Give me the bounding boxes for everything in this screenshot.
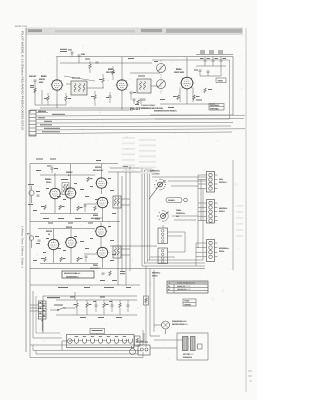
svg-text:12AT6: 12AT6 (46, 230, 53, 233)
svg-text:RECEPTACLE 1A: RECEPTACLE 1A (172, 323, 188, 326)
svg-text:EXTERNAL: EXTERNAL (219, 247, 230, 250)
chassis main frame top edge (30, 163, 118, 165)
left margin note rotated (21, 226, 24, 268)
tube heater H6 (115, 339, 119, 344)
filter value labels (70, 297, 122, 319)
connector J2 to FM tuner supply (39, 301, 47, 319)
wire: routing mesh bottoms (142, 265, 205, 267)
tube heater H8 (129, 339, 133, 344)
loop antenna LA (28, 184, 34, 205)
capacitor pair above caption (133, 99, 143, 104)
svg-text:105 100 6.5: 105 100 6.5 (177, 288, 186, 291)
output transformer T5 (113, 246, 121, 258)
svg-text:CHGR: CHGR (219, 210, 225, 213)
power nested frame 3 (36, 296, 60, 333)
wire: AM section bus lines (40, 174, 95, 176)
wire: V7 leads (102, 208, 104, 222)
svg-text:SPKR: SPKR (219, 250, 225, 253)
resistor R3 (91, 91, 96, 106)
wire: T2 couplings (151, 85, 158, 87)
wire: bottom return 1 (33, 350, 140, 352)
switch SW on-off (50, 305, 75, 311)
wire: bus drops to power section (117, 264, 119, 285)
dial lamp label box (90, 328, 105, 334)
wire: routing mesh verticals (141, 168, 143, 266)
wire: phono bus lines (38, 228, 95, 230)
wire: verticals from controls down (145, 266, 147, 347)
parts under output adj (100, 271, 125, 281)
svg-text:© John F. Rider: © John F. Rider (141, 104, 155, 107)
label box fuse rating (183, 299, 196, 306)
wire: vertical feeders to strips (197, 175, 199, 248)
wire: V4 leads (54, 173, 56, 188)
svg-text:6BE6: 6BE6 (108, 68, 114, 71)
AC outlet J3 (137, 342, 150, 356)
svg-text:SPEAKER: SPEAKER (183, 356, 193, 359)
wire: switch feeds to strips (152, 176, 206, 178)
wire: V10 V11 leads (100, 223, 102, 227)
header band: printed page header strip (26, 28, 243, 35)
wire: V5 leads (70, 164, 72, 188)
tube V1 6BA6 FM RF amp (51, 80, 64, 92)
cable labels (38, 111, 65, 133)
phono motor plug P3 (162, 321, 170, 334)
wire: power section top rail (30, 284, 140, 286)
svg-text:PAGE 19-8: PAGE 19-8 (15, 25, 28, 28)
label phono motor (172, 320, 188, 326)
S1 actuator arm (149, 185, 160, 200)
svg-text:100 85 1.2: 100 85 1.2 (177, 285, 185, 288)
wire: heater series links (70, 339, 74, 341)
svg-text:V4: V4 (168, 285, 170, 288)
svg-text:SCHEMATIC (FM TUNER): SCHEMATIC (FM TUNER) (154, 110, 177, 113)
ballast box right of heaters (135, 336, 141, 346)
label S2 tone switch (176, 209, 186, 218)
wire: V6 leads (101, 164, 103, 178)
power sub-box frame (43, 296, 137, 333)
svg-text:TONE: TONE (176, 209, 182, 212)
misc AM part labels (43, 189, 89, 219)
wire: P1 P2 links (168, 231, 186, 233)
wire: ground bus under FM section (40, 107, 150, 109)
scatter labels middle block (33, 166, 128, 261)
svg-text:SW: SW (176, 215, 179, 218)
label V11 50B5 (90, 264, 101, 270)
svg-text:OUTPUT TUBE B+: OUTPUT TUBE B+ (64, 272, 81, 275)
label TS2 record changer (219, 207, 228, 213)
wire: T1 couplings (87, 87, 104, 89)
resistor R51 filter (86, 300, 92, 315)
resistor R50 filter (74, 300, 79, 315)
tube V7 50B5 output (96, 197, 109, 209)
connector strip P2 (158, 248, 168, 264)
capacitor C7 at V2 (130, 92, 137, 100)
svg-text:TOP VIEW: TOP VIEW (210, 108, 219, 111)
resistor R25 (94, 206, 96, 211)
capacitor C52 filter (109, 300, 114, 312)
misc phono part labels (43, 241, 89, 253)
resistor R4 (99, 74, 104, 88)
chassis left edge (29, 164, 31, 346)
label V9 12AT6 (66, 226, 73, 229)
label V4 12BE6 (45, 178, 52, 184)
svg-text:12BE6: 12BE6 (45, 178, 52, 181)
svg-text:RATING: RATING (185, 303, 192, 306)
label TS3 external speaker (219, 247, 230, 253)
svg-text:FM IF AMP: FM IF AMP (174, 71, 185, 74)
connector strip P1 (158, 228, 168, 244)
table voltage chart (167, 281, 208, 293)
resistor R10 (204, 88, 212, 93)
wire: filter rails (56, 299, 137, 301)
svg-text:FM ANT: FM ANT (29, 75, 37, 78)
resistor R1 under V1 (44, 93, 49, 105)
resistor R8 under V3 (173, 95, 179, 100)
wire: plug feeds (154, 324, 162, 326)
variable capacitor C2B tuning (157, 80, 166, 89)
capacitor C21 above V4 (47, 165, 58, 173)
heater labels (75, 335, 126, 338)
wire: FM bottom frame left part (30, 109, 133, 111)
capacitor C13 (194, 70, 202, 77)
row labels above right caps (200, 51, 223, 54)
label V2 6BE6 CONV (106, 68, 116, 74)
resistor R20 (41, 205, 46, 210)
wire: bottom return 3 (30, 357, 143, 359)
label V7 50B5 (91, 214, 103, 220)
left fold line (25, 28, 27, 352)
wire: V1 cathode down (56, 90, 58, 108)
wire: T4 to speaker lines (121, 198, 130, 200)
resistor R9 under V3 (193, 95, 200, 100)
wire: AVC diagonal (64, 76, 95, 81)
svg-text:6BA6: 6BA6 (41, 75, 47, 78)
rotary switch S2 tone (157, 210, 169, 222)
svg-text:C1B: C1B (81, 53, 86, 56)
caption small note (154, 110, 177, 113)
tube heater H4 (99, 339, 103, 344)
capacitor C23 (84, 205, 87, 212)
capacitor C12 top right (220, 57, 227, 67)
tube V2 6BE6 FM converter (116, 80, 129, 92)
small parts under V2 (135, 99, 146, 105)
tube V11 50B5 output 3 (96, 247, 109, 259)
capacitor C6 mid top (85, 59, 99, 64)
wire: couplings to controls (110, 167, 142, 169)
capacitor C5 (106, 92, 112, 103)
resistor R21 (59, 205, 65, 210)
trimmer capacitor C1A C1B (68, 49, 86, 64)
svg-text:C1A: C1A (68, 49, 73, 52)
svg-text:+105V: +105V (218, 80, 224, 83)
tube V9 12AT6 phase inverter (65, 237, 78, 249)
labels above chassis frame (36, 159, 101, 162)
resistor R23 (87, 177, 93, 182)
label box output tube B+ adjustment (62, 271, 94, 278)
svg-text:6BA6: 6BA6 (176, 68, 182, 71)
tube V5 12BA6 AM IF (64, 188, 77, 200)
tube heater H7 (123, 339, 127, 344)
svg-text:12AT6: 12AT6 (95, 166, 102, 169)
wire: routing mesh top corners (142, 167, 152, 169)
label clarion speaker (183, 353, 193, 359)
ghost bleed right margin (236, 205, 243, 237)
IF transformer T1 FM (71, 78, 87, 96)
svg-text:( Also See Other Side ): ( Also See Other Side ) (21, 226, 24, 268)
wire: J1 feed from above (39, 109, 41, 112)
wire: speaker connections (150, 347, 177, 349)
label V8 12AT6 (46, 230, 53, 236)
label to tuner (47, 297, 60, 298)
speaker field part (197, 344, 203, 349)
rotary switch S1 function (154, 179, 166, 191)
svg-text:DET AVC AF: DET AVC AF (93, 169, 104, 172)
wire: V9 leads (70, 248, 72, 263)
tube V6 12AT6 det AVC (95, 178, 108, 190)
svg-text:AMP: AMP (39, 81, 44, 84)
wire: right column feeds (196, 65, 226, 67)
tube V10 50B5 output 2 (95, 226, 108, 238)
label V3 6BA6 FM IF (174, 68, 185, 74)
svg-text:50B5: 50B5 (95, 218, 101, 221)
label box: tuner top view (209, 104, 224, 111)
left margin title rotated PILOT MODEL E-10 (21, 31, 25, 130)
svg-text:RECORD: RECORD (152, 272, 161, 275)
ghost bleed text block (122, 137, 156, 174)
svg-text:FM RF: FM RF (39, 78, 46, 81)
svg-text:RECORD: RECORD (219, 207, 228, 210)
wire: V8 leads (53, 250, 55, 263)
variable capacitor C2A tuning (154, 61, 166, 73)
resistor R32 (77, 257, 83, 262)
svg-text:V7: V7 (168, 288, 170, 291)
wire: cable line 4 (36, 122, 233, 124)
svg-text:ADJUSTMENT: ADJUSTMENT (66, 275, 80, 278)
wire: V2 cathode down (121, 90, 123, 110)
resistor R22 (77, 206, 83, 211)
capacitor C51 filter (93, 300, 98, 312)
pilot lamp I1 (67, 339, 72, 344)
svg-text:OUTPUT: OUTPUT (219, 181, 228, 184)
svg-text:CONTROL: CONTROL (176, 212, 186, 215)
svg-text:12BA6: 12BA6 (66, 171, 73, 174)
paper speckle texture (28, 45, 242, 360)
power nested frame 1 (33, 291, 62, 338)
svg-text:CONV: CONV (46, 181, 52, 184)
tube heater H1 (75, 339, 79, 344)
svg-text:CHGR: CHGR (152, 275, 158, 278)
speaker assembly box (177, 333, 208, 360)
label V5 12BA6 (66, 171, 73, 177)
svg-text:50B5: 50B5 (93, 264, 99, 267)
wire: heater string return (62, 340, 67, 342)
connector J1 FM cable ladder (29, 111, 36, 137)
wire: FM tuner B+ top bus (56, 56, 233, 58)
resistor R6 mid top (89, 61, 91, 73)
ganged tuning dashed link (160, 60, 162, 94)
wire: strips to mesh TS1 (198, 174, 207, 176)
capacitor C20 at antenna (36, 191, 40, 196)
capacitor C14 (207, 71, 210, 76)
phono input jack (27, 233, 39, 249)
tube heater H3 (91, 339, 95, 344)
wire: V1 plate to top bus (56, 57, 58, 80)
label V10 50B5 (95, 218, 101, 221)
tube heater H2 (83, 339, 87, 344)
wire: cable line 6 (36, 129, 245, 130)
wire: cable line 3 (36, 118, 244, 121)
FM tuner outer frame (150, 57, 233, 116)
terminal strip TS2 record changer (207, 200, 218, 224)
compress control pill (166, 198, 187, 203)
output transformer T4 (113, 196, 121, 208)
wire: cable line 2 (36, 114, 245, 117)
wire: cable line 7 (36, 132, 232, 134)
right page border line (245, 28, 247, 392)
chassis right frame (232, 160, 234, 270)
FM tuner inner frame (152, 60, 230, 119)
label above top bus (60, 49, 134, 59)
svg-text:50B5: 50B5 (93, 214, 99, 217)
speaker voice coil (191, 337, 196, 351)
svg-text:FM CONV: FM CONV (106, 71, 116, 74)
svg-text:COMPR: COMPR (168, 199, 176, 202)
wire: bottom return 2 (36, 353, 138, 355)
wire: audio bus verticals (117, 172, 119, 264)
resistor R2 under V1 (65, 93, 71, 105)
tube V8 12AT6 phono preamp (47, 239, 60, 251)
tube V4 12BE6 AM converter (49, 188, 62, 200)
caption PILOT MODEL E-10 (130, 104, 164, 111)
capacitor C10 top right (200, 57, 210, 67)
wire: leads into J2 (30, 304, 39, 306)
wire: cable line 1 short (36, 112, 48, 114)
power nested frame 2 (30, 330, 143, 345)
label V6 12AT6 (93, 166, 104, 172)
bias labels under V3 (160, 99, 202, 108)
terminal strip TS3 external speaker (207, 240, 218, 262)
capacitor C30 (38, 240, 41, 241)
wire: strips to mesh TS2 (198, 202, 207, 204)
svg-text:PLATE SCREEN CATH: PLATE SCREEN CATH (177, 282, 196, 285)
label S1 function switch (150, 170, 160, 176)
heater string box (67, 335, 135, 348)
resistor R31 (60, 257, 66, 262)
capacitor C53 (127, 300, 130, 312)
wire: V1 grid return (41, 90, 43, 104)
power labels row (58, 287, 131, 288)
tube V3 6BA6 FM IF amp (180, 77, 194, 90)
wire: secondary top bus (60, 62, 152, 64)
label V1 6BA6 FM RF (39, 75, 47, 84)
wire: cable line 5 (36, 125, 231, 128)
svg-text:FM TUNER: FM TUNER (210, 104, 220, 107)
output transformer in speaker box (183, 337, 189, 351)
component: ballast resistor (144, 296, 149, 305)
capacitor C33 (85, 256, 88, 262)
tube heater H5 (107, 339, 111, 344)
terminal strip TS1 aux output (207, 172, 218, 193)
resistor R52 (103, 300, 109, 315)
wire: FM section lower bus (160, 103, 215, 105)
right margin tick marks (248, 370, 252, 372)
wire: S2 links (162, 225, 164, 228)
svg-text:PILOT MODEL E-10 (Electra FM): PILOT MODEL E-10 (Electra FM) RADIO-PHON… (21, 31, 25, 130)
wire: T5 to speaker lines (121, 248, 130, 250)
resistor R30 (41, 257, 46, 262)
IF transformer T2 FM (137, 76, 151, 94)
wire: V3 pins (186, 57, 188, 77)
label record changer (152, 272, 161, 278)
AC plug cap (130, 346, 136, 355)
resistor R53 (119, 300, 121, 315)
wire: strips to mesh TS3 (196, 242, 207, 244)
node +105V box (216, 78, 226, 83)
wire: J2 down lead (41, 319, 43, 331)
capacitor C11 top right (212, 57, 219, 67)
wire: V2 plate up (121, 57, 123, 80)
label TS1 aux output (219, 178, 228, 184)
IF transformer T3 AM 456KC (61, 179, 69, 195)
FM antenna input (29, 75, 37, 105)
resistor R5 (112, 66, 114, 80)
